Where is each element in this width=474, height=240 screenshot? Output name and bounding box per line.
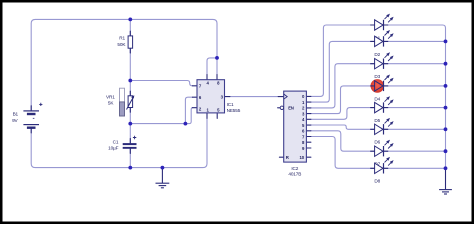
pin stub: R1 bottom terminal [129, 48, 131, 53]
wire: threshold node to 555 pin2/pin6 junction [130, 123, 185, 125]
junction: bus at D5 [444, 106, 448, 110]
svg-text:NE555: NE555 [227, 108, 241, 113]
pin stub: IC2 output 3 [306, 113, 311, 115]
junction: V+ at 555 pins 4/8 [215, 56, 219, 60]
wire: top rail dot down to R1 top [129, 19, 131, 36]
svg-text:D4: D4 [374, 96, 380, 101]
LED D4 [370, 75, 393, 92]
wire: IC2 output 6 to LED D7 anode [311, 131, 375, 151]
pin stub: IC2 output 5 [306, 124, 311, 126]
junction: 0V rail at ground [161, 166, 165, 170]
LED D1 [370, 14, 393, 31]
pin stub: 555 pin 4 [206, 75, 208, 80]
EN inhibit bubble [280, 106, 283, 109]
pin stub: IC2 output 4 [306, 118, 311, 120]
junction: bus at D7 [444, 149, 448, 153]
svg-text:D5: D5 [374, 118, 380, 123]
pin stub: IC2 output 1 [306, 101, 311, 103]
wire: battery - down left side and 0V rail to 555 pin1 [31, 118, 207, 167]
LED D7 [370, 140, 393, 157]
pin stub: VR1 top terminal [129, 91, 131, 96]
junction: bus at D4 [444, 84, 448, 88]
svg-text:B1: B1 [13, 112, 19, 117]
resistor R1 [128, 36, 133, 48]
wire: IC2 output 3 to LED D4 anode [311, 86, 375, 114]
wire: branch from V+ dot to 555 pin4 [207, 58, 216, 75]
svg-text:10: 10 [300, 155, 305, 160]
ground symbol under LED cathode bus [439, 168, 452, 194]
capacitor C1 [123, 143, 137, 149]
pin stub: C1 top terminal [129, 139, 131, 144]
pin stub: 555 pin 6 [192, 96, 197, 98]
pin stub: 555 pin 8 [216, 75, 218, 80]
wire: VR1 bottom to C1 top [129, 108, 131, 144]
wire: IC2 output 0 to LED D1 anode [311, 25, 375, 96]
junction: VR1/C1 node to pins 2/6 [128, 122, 132, 126]
wire: LED D3 cathode to bus [384, 63, 446, 65]
pin stub: IC2 output 7 [306, 136, 311, 138]
pin stub: 555 pin 7 [192, 85, 197, 87]
wire: IC2 output 2 to LED D3 anode [311, 64, 375, 108]
pin stub: IC2 output 6 [306, 130, 311, 132]
svg-text:VR1: VR1 [106, 95, 115, 100]
wire: battery + up left side and top V+ rail to 555 pin8 column [31, 19, 217, 110]
wire: 555 pin6 down to junction [185, 97, 192, 123]
LED D2 [370, 30, 393, 47]
wire: R1/VR1 node to 555 pin7 [130, 81, 192, 86]
wire: IC2 output 7 to LED D8 anode [311, 137, 375, 169]
pin stub: IC2 output 0 [306, 95, 311, 97]
clock input chevron [284, 94, 288, 99]
svg-text:D6: D6 [374, 140, 380, 145]
LED D6 [370, 118, 393, 135]
svg-text:R1: R1 [119, 36, 125, 41]
LED D5 [370, 96, 393, 113]
wire: IC2 output 1 to LED D2 anode [311, 41, 375, 102]
junction: bus at D2 [444, 40, 448, 44]
junction: bus at D8 [444, 166, 448, 170]
svg-text:4017B: 4017B [288, 172, 301, 177]
pin stub: IC2 divide-by-10 output [306, 156, 311, 158]
wire: 555 pin2 down to junction [185, 108, 192, 124]
wire: R1 bottom to VR1 top [129, 48, 131, 96]
pin stub: 555 pin 5 [216, 113, 218, 119]
junction: R1/VR1 node to pin 7 [128, 79, 132, 83]
IC2 4017B decade counter [284, 91, 307, 162]
LED D8 [370, 157, 393, 174]
svg-text:C1: C1 [113, 140, 119, 145]
junction: top rail at R1 [128, 18, 132, 22]
pin stub: VR1 bottom terminal [129, 108, 131, 113]
svg-text:D2: D2 [374, 52, 380, 57]
svg-text:10µF: 10µF [108, 146, 118, 151]
svg-text:50K: 50K [117, 42, 126, 47]
wire: LED D2 cathode to bus [384, 40, 446, 42]
LED D3 [370, 52, 393, 69]
wire: IC2 output 5 to LED D6 anode [311, 125, 375, 129]
red glow of lit LED D4 [371, 79, 385, 93]
svg-text:IC2: IC2 [291, 166, 298, 171]
pin stub: 555 pin 3 [225, 96, 230, 98]
pin stub: 555 pin 2 [192, 107, 197, 109]
wire: C1 bottom to 0V rail [129, 149, 131, 168]
pin stub: C1 bottom terminal [129, 149, 131, 154]
slider control for VR1 [120, 88, 125, 116]
IC1 NE555 timer [197, 80, 225, 113]
wire: IC2 output 4 to LED D5 anode [311, 108, 375, 120]
wire: LED D7 cathode to bus [384, 150, 446, 152]
pin stub: IC2 output 8 [306, 141, 311, 143]
wire: LED D4 cathode to bus [384, 85, 446, 87]
svg-text:D8: D8 [374, 179, 380, 184]
wire: 555 pin3 output to IC2 clock input [230, 96, 278, 98]
pin stub: 555 pin 1 [206, 113, 208, 119]
pin stub: R1 top terminal [129, 31, 131, 36]
svg-text:D3: D3 [374, 74, 380, 79]
junction: 0V rail at C1 [128, 166, 132, 170]
pin stub: IC2 output 9 [306, 147, 311, 149]
wire: LED D5 cathode to bus [384, 107, 446, 109]
ground symbol on 0V rail [156, 168, 170, 188]
svg-text:EN: EN [288, 105, 294, 110]
pin stub: IC2 EN input [278, 107, 281, 109]
junction: pin2/pin6 join [184, 122, 188, 126]
wire: LED D1 cathode and right cathode bus down to ground [384, 25, 446, 168]
pin stub: IC2 output 2 [306, 107, 311, 109]
wire: LED D8 cathode to bus [384, 167, 446, 169]
svg-text:IC1: IC1 [227, 102, 234, 107]
pin stub: IC2 clock input [278, 96, 284, 98]
junction: bus at D3 [444, 62, 448, 66]
pin stub: battery + terminal [30, 106, 32, 111]
potentiometer VR1 [127, 95, 135, 109]
pin stub: IC2 R reset input [279, 156, 283, 158]
battery B1 [23, 103, 42, 128]
wire: LED D6 cathode to bus [384, 128, 446, 130]
pin stub: battery - terminal [30, 128, 32, 133]
junction: bus at D6 [444, 127, 448, 131]
